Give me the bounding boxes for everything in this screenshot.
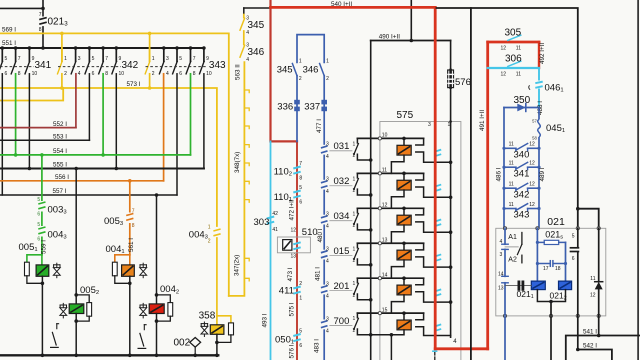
- breaker 0451: [535, 120, 543, 138]
- svg-text:3: 3: [500, 252, 503, 258]
- suppressor 358: [203, 322, 205, 337]
- svg-text:4: 4: [326, 224, 329, 230]
- wire 542 I: [578, 350, 612, 360]
- contact 345 yellow: [243, 8, 245, 15]
- svg-text:10: 10: [206, 71, 212, 77]
- switch below 0042: [143, 325, 145, 330]
- svg-text:7: 7: [39, 12, 42, 18]
- wire blue ladder right rail: [538, 108, 540, 229]
- wire 490 I+II bus: [371, 40, 451, 42]
- svg-text:540 I+II: 540 I+II: [331, 1, 352, 8]
- contact 340 blue rung: [502, 142, 540, 161]
- wire 0041 bottom: [129, 276, 131, 355]
- svg-text:8: 8: [39, 27, 42, 33]
- svg-text:336: 336: [277, 102, 293, 113]
- wire yellow to 358: [216, 238, 218, 325]
- plug pins 14/13: [502, 275, 508, 277]
- svg-text:A1: A1: [508, 234, 517, 241]
- svg-text:11: 11: [516, 46, 521, 52]
- wire 491 I+II red vertical: [486, 42, 489, 349]
- relay 0211: [531, 281, 545, 290]
- svg-text:6: 6: [179, 71, 182, 77]
- svg-text:6: 6: [299, 200, 302, 206]
- suppressor 0042: [142, 303, 144, 318]
- capacitor 17/18: [537, 263, 549, 265]
- contact 343 blue rung: [502, 202, 540, 221]
- svg-text:1: 1: [299, 58, 302, 64]
- relay 0212: [559, 281, 572, 290]
- svg-text:541 I: 541 I: [583, 328, 597, 335]
- contact 303: [267, 217, 274, 219]
- junction 573/342-2: [60, 86, 64, 90]
- svg-text:411: 411: [279, 286, 294, 297]
- svg-text:57: 57: [532, 118, 537, 123]
- relay row 031: [321, 133, 453, 174]
- junction 554/341-8: [14, 153, 18, 157]
- svg-text:358: 358: [199, 311, 216, 322]
- contact bank 343: [145, 46, 226, 77]
- wire blue 336 down to junction: [296, 111, 298, 141]
- suppressor 0051: [56, 263, 58, 278]
- capacitor 5/6: [577, 228, 579, 247]
- svg-text:8: 8: [299, 176, 302, 182]
- svg-text:12: 12: [501, 72, 507, 78]
- svg-text:6: 6: [92, 71, 95, 77]
- svg-text:8: 8: [18, 71, 21, 77]
- svg-text:489 I: 489 I: [539, 167, 546, 181]
- border line right edge: [637, 0, 639, 360]
- relay row 032: [321, 168, 453, 209]
- svg-text:11: 11: [509, 142, 514, 148]
- junction 556 drop 0053: [128, 179, 132, 183]
- svg-text:12: 12: [382, 203, 388, 209]
- wire 551 down: [550, 302, 552, 360]
- svg-text:201: 201: [334, 281, 350, 292]
- svg-text:5: 5: [5, 56, 8, 62]
- contact 0043 yellow on 217: [212, 228, 222, 239]
- relay 0041 group: [106, 244, 147, 355]
- svg-text:8: 8: [105, 71, 108, 77]
- svg-text:342: 342: [122, 60, 139, 71]
- contact bank 341: [0, 46, 52, 77]
- svg-text:2: 2: [326, 76, 329, 82]
- wire 347 ticks: [244, 258, 249, 261]
- wire red 270 vertical: [269, 0, 271, 141]
- wire 341-10 black drop: [28, 74, 30, 169]
- wire 342-8 green drop: [102, 74, 104, 155]
- svg-text:477 I: 477 I: [316, 119, 323, 133]
- svg-text:4: 4: [326, 154, 329, 160]
- plug pins 4/3: [502, 243, 508, 245]
- svg-text:1: 1: [353, 246, 356, 252]
- svg-text:552 I: 552 I: [53, 121, 67, 128]
- svg-text:576 I: 576 I: [289, 344, 296, 358]
- wire 557 I black bus: [0, 194, 177, 196]
- svg-text:480 I: 480 I: [317, 228, 324, 242]
- svg-text:7: 7: [193, 56, 196, 62]
- relay 358 coil: [210, 325, 224, 335]
- svg-text:2: 2: [64, 71, 67, 77]
- svg-text:557 I: 557 I: [53, 188, 67, 195]
- junction 569/343: [148, 32, 152, 36]
- svg-text:12: 12: [590, 293, 596, 299]
- svg-text:18: 18: [555, 266, 561, 272]
- contact 0053: [125, 213, 135, 224]
- relay 358 group: [199, 311, 234, 356]
- svg-text:7: 7: [105, 56, 108, 62]
- resistor 358: [229, 323, 234, 335]
- wire blue right column: [536, 228, 538, 281]
- contact 306 cyan: [488, 67, 539, 69]
- svg-text:5: 5: [37, 197, 40, 203]
- ground bus bottom-left: [0, 354, 218, 356]
- svg-text:303: 303: [254, 217, 270, 228]
- wire 342-10 black drop: [115, 74, 117, 169]
- wire 493 I cyan vertical: [270, 141, 272, 360]
- relay row 700: [321, 307, 451, 360]
- junction 569/342: [60, 32, 64, 36]
- wire 554 I green bus: [0, 154, 191, 156]
- relay row 015: [321, 237, 453, 278]
- wire blue A1 column: [504, 228, 506, 244]
- svg-text:6: 6: [572, 256, 575, 262]
- relay 0051 coil: [36, 265, 49, 276]
- svg-text:553 I: 553 I: [53, 134, 67, 141]
- svg-text:42: 42: [272, 211, 278, 217]
- svg-text:1: 1: [326, 58, 329, 64]
- wire 472 I+II dark red vertical: [296, 141, 298, 360]
- unit 510 box: [277, 237, 310, 253]
- svg-text:342: 342: [514, 189, 530, 200]
- wire top link to red: [244, 7, 271, 9]
- junction 555/341-10: [28, 167, 32, 171]
- filter element: [505, 285, 531, 287]
- svg-text:542 I: 542 I: [583, 343, 597, 350]
- svg-text:347(2x): 347(2x): [234, 255, 241, 276]
- contact 342 blue rung: [502, 182, 540, 201]
- svg-text:3: 3: [78, 56, 81, 62]
- svg-text:5: 5: [299, 329, 302, 335]
- contact 341 blue rung: [502, 161, 540, 180]
- svg-text:7: 7: [132, 209, 135, 215]
- diode 350: [504, 107, 539, 109]
- wire 342-4 dark red drop: [75, 74, 77, 128]
- coil 336: [294, 100, 300, 105]
- contact 0461: [535, 81, 544, 89]
- svg-text:2: 2: [152, 71, 155, 77]
- svg-text:1: 1: [353, 141, 356, 147]
- svg-text:11: 11: [509, 161, 514, 167]
- svg-text:12: 12: [501, 46, 507, 52]
- resistor 0052: [87, 303, 92, 317]
- svg-text:1: 1: [299, 296, 302, 302]
- svg-text:2: 2: [299, 281, 302, 287]
- svg-text:6: 6: [5, 71, 8, 77]
- unit 021 box: [496, 228, 606, 316]
- contact 0033: [37, 201, 47, 212]
- svg-text:A2: A2: [508, 256, 517, 263]
- junction 554 drop 0033: [40, 153, 44, 157]
- svg-text:3: 3: [326, 246, 329, 252]
- wire 0051 bottom: [41, 276, 43, 355]
- svg-text:1: 1: [353, 176, 356, 182]
- svg-text:10: 10: [382, 133, 388, 139]
- wire 477/480/483 blue vertical: [323, 111, 325, 360]
- suppressor 0041: [142, 263, 144, 278]
- svg-text:5: 5: [299, 185, 302, 191]
- junction top-left: [41, 7, 45, 11]
- svg-text:481 I: 481 I: [314, 267, 321, 281]
- relay 0042 group: [138, 284, 179, 355]
- svg-text:032: 032: [334, 176, 350, 187]
- relay 0042 coil: [149, 304, 164, 314]
- svg-text:5: 5: [179, 56, 182, 62]
- svg-text:1: 1: [353, 211, 356, 217]
- wire branch to diode column: [578, 209, 599, 229]
- svg-text:343: 343: [514, 210, 530, 221]
- svg-text:346: 346: [248, 47, 265, 58]
- svg-text:345: 345: [277, 65, 293, 76]
- svg-text:576: 576: [455, 77, 471, 88]
- svg-text:486 I: 486 I: [496, 167, 503, 181]
- junction 557 drop 0042: [155, 193, 159, 197]
- svg-text:3: 3: [326, 316, 329, 322]
- wire yellow 347 U-bottom: [229, 62, 245, 296]
- relay row 034: [321, 203, 453, 244]
- svg-text:12: 12: [529, 182, 535, 188]
- cyan stub below red corner: [433, 350, 437, 352]
- wire 341-6 black drop: [1, 74, 3, 195]
- svg-text:573 I: 573 I: [127, 81, 141, 88]
- svg-text:556 I: 556 I: [55, 174, 69, 181]
- svg-text:350: 350: [514, 95, 531, 106]
- svg-text:41: 41: [272, 227, 278, 233]
- svg-text:7: 7: [18, 56, 21, 62]
- svg-text:6: 6: [299, 343, 302, 349]
- svg-text:569 I: 569 I: [2, 27, 16, 34]
- wire blue ladder left rail: [503, 108, 505, 229]
- svg-text:3: 3: [326, 212, 329, 218]
- svg-text:8: 8: [132, 223, 135, 229]
- wire drop from top to 490: [410, 0, 412, 41]
- relay row 201: [321, 272, 453, 313]
- svg-text:8: 8: [193, 71, 196, 77]
- svg-text:14: 14: [382, 272, 388, 278]
- svg-text:4: 4: [500, 239, 503, 245]
- wire 569 I yellow bus: [0, 33, 229, 296]
- svg-text:561 I: 561 I: [128, 238, 135, 252]
- svg-text:021: 021: [547, 216, 565, 228]
- svg-text:345: 345: [248, 20, 265, 31]
- wire 541 I: [566, 336, 640, 360]
- wire 555 I black bus: [0, 167, 204, 169]
- suppressor 0052: [62, 303, 64, 318]
- svg-text:559 I: 559 I: [41, 240, 48, 254]
- contact 345 blue: [292, 64, 297, 76]
- wire 552 I dark red bus: [0, 127, 76, 129]
- svg-text:015: 015: [334, 246, 350, 257]
- svg-text:12: 12: [290, 228, 296, 234]
- svg-text:306: 306: [505, 54, 522, 65]
- wire 555 drop to 0052: [75, 169, 77, 305]
- svg-text:11: 11: [382, 168, 387, 174]
- wire long vertical 471: [470, 8, 472, 360]
- wire 343-8 green drop: [190, 74, 192, 155]
- svg-text:10: 10: [32, 71, 38, 77]
- svg-text:11: 11: [509, 182, 514, 188]
- svg-text:1: 1: [353, 281, 356, 287]
- svg-text:340: 340: [514, 150, 530, 161]
- svg-text:3: 3: [326, 281, 329, 287]
- junction 554/342-8: [101, 153, 105, 157]
- wire 358 bottom: [216, 334, 218, 355]
- contact 0501: [293, 334, 300, 336]
- wire 342-6 black drop: [88, 74, 90, 141]
- switch below 0052: [56, 324, 58, 329]
- svg-text:11: 11: [509, 202, 514, 208]
- wire 348 ticks: [244, 90, 249, 93]
- svg-text:4: 4: [166, 71, 169, 77]
- svg-text:1: 1: [208, 224, 211, 230]
- relay 0052 coil: [69, 304, 84, 314]
- svg-text:551 I: 551 I: [2, 40, 16, 47]
- svg-text:14: 14: [498, 272, 504, 278]
- svg-text:510: 510: [302, 227, 318, 238]
- wire top black link: [437, 8, 578, 228]
- svg-text:3: 3: [428, 122, 431, 128]
- wire green drop 554 to 0051: [41, 155, 43, 255]
- svg-text:13: 13: [498, 286, 504, 292]
- resistor 0041: [112, 262, 117, 276]
- svg-text:491 I+II: 491 I+II: [479, 110, 486, 131]
- svg-text:1: 1: [353, 316, 356, 322]
- wire 343-6 black drop: [176, 74, 178, 195]
- svg-text:4: 4: [78, 71, 81, 77]
- svg-text:10: 10: [119, 71, 125, 77]
- svg-text:13: 13: [382, 237, 388, 243]
- wire 553 I black bus: [0, 139, 89, 141]
- wire orange drop 556 to 0041: [129, 181, 131, 255]
- contact 1102: [293, 167, 300, 169]
- contact 411: [293, 287, 300, 289]
- contact 305 red: [488, 41, 539, 44]
- svg-text:11: 11: [590, 276, 595, 282]
- contact 346 blue: [320, 64, 325, 76]
- svg-text:493 I: 493 I: [262, 313, 269, 327]
- svg-text:472 I+II: 472 I+II: [289, 199, 296, 220]
- wire yellow branch to left edge: [0, 88, 63, 101]
- svg-text:341: 341: [514, 168, 530, 179]
- junction 555/342-10: [115, 167, 119, 171]
- junction 0213/551: [41, 46, 45, 50]
- svg-text:12: 12: [529, 202, 535, 208]
- junction 577/598: [576, 207, 580, 211]
- component 576 fuse: [448, 70, 454, 88]
- wire 492 I+II red: [538, 42, 540, 68]
- relay 0051 group: [19, 240, 61, 356]
- contact 0043 green: [37, 226, 47, 237]
- diode 11/12: [598, 228, 600, 281]
- svg-text:034: 034: [334, 211, 350, 222]
- svg-text:4: 4: [326, 329, 329, 335]
- svg-text:3: 3: [166, 56, 169, 62]
- contact 346 yellow: [239, 43, 249, 56]
- svg-text:575 I: 575 I: [289, 302, 296, 316]
- svg-text:554 I: 554 I: [53, 148, 67, 155]
- svg-text:5: 5: [37, 222, 40, 228]
- svg-text:3: 3: [326, 177, 329, 183]
- svg-text:031: 031: [334, 141, 350, 152]
- coil 337: [321, 100, 327, 105]
- svg-text:12: 12: [529, 142, 535, 148]
- wire 341-8 green drop: [15, 74, 17, 155]
- wire red vertical 435: [434, 7, 437, 348]
- svg-text:492 I+II: 492 I+II: [539, 43, 546, 64]
- relay 0041 coil: [122, 265, 135, 276]
- svg-text:5: 5: [92, 56, 95, 62]
- svg-text:12: 12: [529, 161, 535, 167]
- relay 0052 group: [51, 285, 100, 355]
- svg-text:346: 346: [303, 65, 319, 76]
- wire relay bottoms: [537, 290, 565, 302]
- svg-text:4: 4: [326, 294, 329, 300]
- wire 343-4 orange drop: [163, 74, 165, 181]
- wire 343-1 yellow drop to 573: [149, 33, 151, 61]
- svg-text:3: 3: [326, 142, 329, 148]
- svg-text:343: 343: [209, 60, 226, 71]
- svg-text:58: 58: [532, 136, 537, 141]
- svg-text:17: 17: [543, 266, 549, 272]
- svg-text:1: 1: [152, 56, 155, 62]
- wire 557 drop to 0042: [156, 195, 158, 304]
- wire 551 I black bus: [0, 47, 204, 49]
- svg-text:473 I: 473 I: [287, 267, 294, 281]
- svg-text:563 II: 563 II: [235, 64, 242, 80]
- resistor 0051: [25, 262, 30, 276]
- svg-text:2: 2: [299, 76, 302, 82]
- junction 555 drop 0052: [74, 167, 78, 171]
- svg-text:483 I: 483 I: [314, 339, 321, 353]
- blue bridge 345/346: [297, 35, 324, 63]
- wire right rail 576: [450, 41, 452, 338]
- wire 556 I orange bus: [0, 180, 164, 182]
- wire 573 I yellow bus: [0, 88, 217, 226]
- contact bank 342: [58, 46, 139, 77]
- svg-text:7: 7: [299, 161, 302, 167]
- junction 573/343-2: [148, 86, 152, 90]
- svg-text:002: 002: [174, 338, 191, 349]
- svg-text:555 I: 555 I: [53, 162, 67, 169]
- wire left rail matrix: [370, 41, 372, 360]
- svg-text:13: 13: [290, 253, 296, 259]
- svg-text:348(7x): 348(7x): [234, 152, 241, 173]
- svg-text:4: 4: [326, 259, 329, 265]
- svg-text:488 I: 488 I: [537, 101, 544, 115]
- svg-text:1: 1: [64, 56, 67, 62]
- contact 1101: [293, 191, 300, 193]
- wire bus top-left (node to 0213): [0, 7, 43, 9]
- svg-text:305: 305: [505, 28, 522, 39]
- svg-text:6: 6: [37, 212, 40, 218]
- wire cyan drop 0461: [538, 68, 540, 108]
- contact A1/A2: [505, 246, 518, 248]
- wire 343-10 black drop: [203, 74, 205, 169]
- wire 540 I+II red bus: [271, 6, 436, 9]
- svg-text:15: 15: [382, 307, 388, 313]
- unit 575 box: [380, 122, 461, 360]
- svg-text:4: 4: [326, 189, 329, 195]
- svg-text:341: 341: [35, 60, 52, 71]
